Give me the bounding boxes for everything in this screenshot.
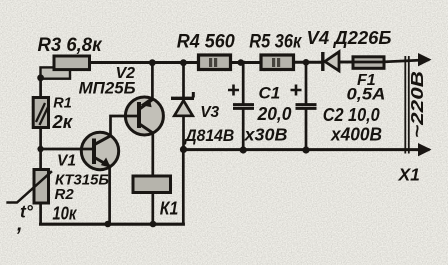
svg-text:V4 Д226Б: V4 Д226Б xyxy=(307,28,392,48)
svg-text:Д814В: Д814В xyxy=(183,126,234,145)
svg-text:10к: 10к xyxy=(52,204,77,224)
svg-text:R1: R1 xyxy=(53,96,72,112)
svg-text:V1: V1 xyxy=(57,152,76,169)
svg-text:Х1: Х1 xyxy=(398,165,420,185)
svg-text:R5 36к: R5 36к xyxy=(249,31,302,52)
svg-text:R4 560: R4 560 xyxy=(177,32,235,53)
svg-text:х30В: х30В xyxy=(243,125,287,145)
svg-text:0,5А: 0,5А xyxy=(347,84,386,103)
svg-text:2к: 2к xyxy=(52,111,74,132)
svg-text:~220В: ~220В xyxy=(407,71,427,138)
svg-text:V3: V3 xyxy=(200,104,219,121)
svg-text:20,0: 20,0 xyxy=(257,104,292,124)
svg-text:МП25Б: МП25Б xyxy=(79,79,136,98)
svg-text:К1: К1 xyxy=(160,198,179,218)
svg-text:С2 10,0: С2 10,0 xyxy=(323,105,380,125)
svg-text:R3 6,8к: R3 6,8к xyxy=(38,35,103,56)
svg-text:,: , xyxy=(16,214,23,236)
svg-text:х400В: х400В xyxy=(330,125,382,145)
svg-text:С1: С1 xyxy=(259,83,281,102)
svg-text:R2: R2 xyxy=(55,186,75,203)
